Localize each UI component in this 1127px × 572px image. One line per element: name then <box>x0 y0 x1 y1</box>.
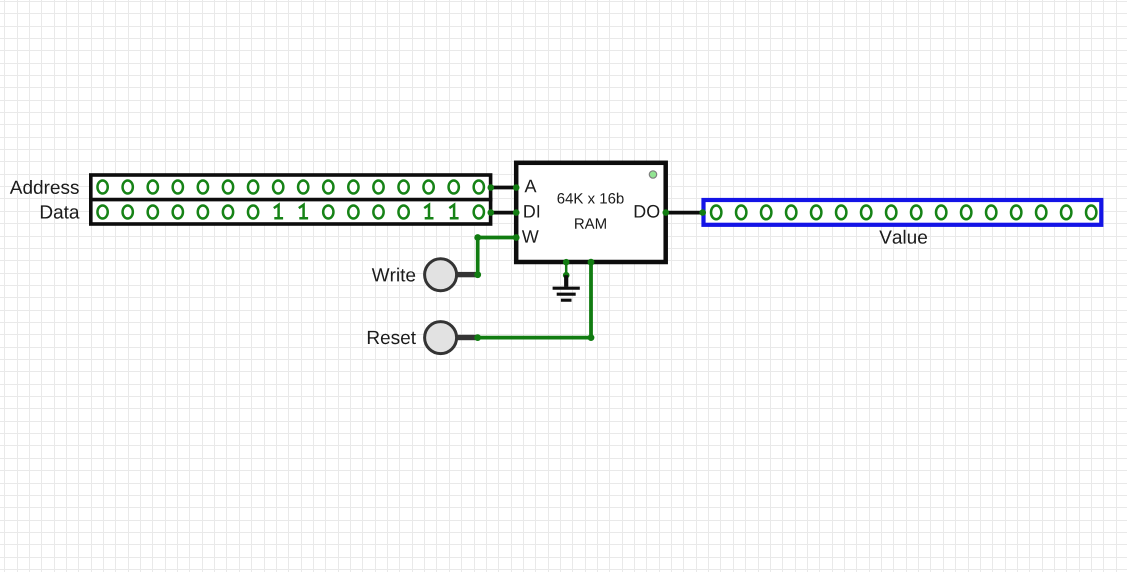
junction at Reset button pin <box>474 334 481 341</box>
wire DO bus to Value display <box>666 211 703 215</box>
chip title RAM <box>575 218 606 228</box>
pin label A <box>525 180 537 192</box>
junction at Value display input <box>699 209 706 216</box>
pin label DO <box>635 205 660 218</box>
wire Address bus to pin A <box>491 186 517 190</box>
wire segment Write net horizontal to pin W <box>478 236 517 240</box>
button Write <box>425 259 478 291</box>
output display Value box <box>704 200 1102 225</box>
label Data <box>41 205 80 218</box>
wire segment Reset net vertical to chip bottom pin <box>589 262 593 337</box>
label Reset <box>368 331 416 344</box>
pin label DI <box>524 205 539 217</box>
junction at pin W <box>513 234 520 241</box>
input register box (Address/Data) <box>89 175 492 224</box>
label Value <box>879 230 927 244</box>
junction at chip ground pin <box>563 259 570 266</box>
ground <box>553 275 580 300</box>
chip title 64K x 16b <box>558 193 624 204</box>
button Reset <box>425 322 478 354</box>
junction at Address box output <box>488 184 495 191</box>
junction at chip bottom pin <box>588 259 595 266</box>
wire segment chip ground pin to ground <box>565 262 568 275</box>
junction Write net corner <box>474 234 481 241</box>
junction at Write button pin <box>474 271 481 278</box>
RAM chip U1 body <box>516 163 666 262</box>
LED indicator on chip <box>649 171 656 178</box>
wire Data bus to pin DI <box>491 211 517 215</box>
wire segment Write net vertical <box>476 238 480 275</box>
junction at pin A <box>513 184 520 191</box>
wire segment Reset net horizontal <box>478 336 591 340</box>
junction Reset net corner <box>588 334 595 341</box>
label Write <box>372 268 415 282</box>
junction at Data box output <box>488 209 495 216</box>
junction at pin DI <box>513 209 520 216</box>
Data bits value 0000000110000110 <box>97 205 484 219</box>
junction at pin DO <box>663 209 670 216</box>
Address bits value 0000000000000000 <box>97 180 484 193</box>
junction at ground symbol <box>563 272 570 279</box>
pin label W <box>522 230 539 242</box>
label Address <box>10 180 79 194</box>
Value bits 0000000000000000 <box>711 206 1096 220</box>
